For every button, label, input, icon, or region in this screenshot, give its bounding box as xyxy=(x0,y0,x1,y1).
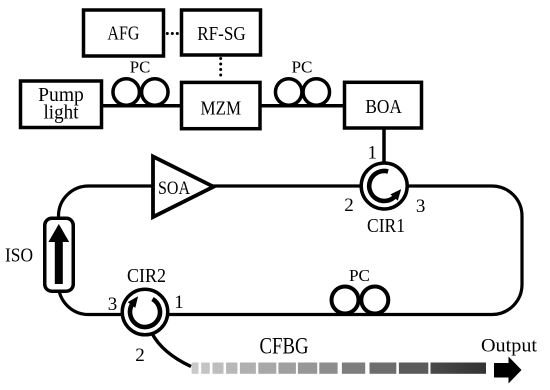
wire CIR2 port 2 to CFBG xyxy=(152,333,192,367)
CFBG label xyxy=(260,334,309,359)
svg-text:Output: Output xyxy=(481,335,538,356)
wire MZM to BOA xyxy=(260,104,345,108)
polarization controller PC (bottom) xyxy=(332,266,389,314)
CFBG grating segments xyxy=(192,363,486,374)
CIR1 label xyxy=(367,215,405,237)
svg-text:PC: PC xyxy=(349,266,370,285)
fiber ring loop xyxy=(59,186,523,315)
svg-text:1: 1 xyxy=(174,292,184,313)
CIR2 label xyxy=(127,265,166,287)
svg-text:3: 3 xyxy=(416,196,426,217)
wire Pump light to MZM xyxy=(101,104,182,108)
svg-text:2: 2 xyxy=(135,345,145,366)
Pump light box xyxy=(21,81,102,128)
svg-text:CIR2: CIR2 xyxy=(127,265,166,287)
CIR2 port 2 xyxy=(135,345,145,366)
svg-text:light: light xyxy=(44,102,79,124)
CIR2 port 3 xyxy=(108,294,118,315)
svg-text:AFG: AFG xyxy=(107,23,139,45)
BOA box xyxy=(345,82,422,128)
circulator CIR1 xyxy=(361,163,407,209)
svg-text:2: 2 xyxy=(344,195,354,216)
svg-text:ISO: ISO xyxy=(5,245,33,267)
MZM box xyxy=(182,82,261,128)
wire BOA to CIR1 port 1 xyxy=(382,128,386,167)
CIR1 port 2 xyxy=(344,195,354,216)
svg-text:PC: PC xyxy=(292,58,313,77)
svg-text:MZM: MZM xyxy=(201,98,242,120)
svg-text:SOA: SOA xyxy=(158,178,190,199)
dotted control line RF-SG to MZM xyxy=(219,57,222,77)
svg-text:CFBG: CFBG xyxy=(260,334,309,359)
svg-text:BOA: BOA xyxy=(365,96,402,118)
polarization controller PC (top left) xyxy=(113,58,168,106)
RF-SG box xyxy=(182,10,261,55)
svg-text:PC: PC xyxy=(130,58,151,77)
CIR1 port 3 xyxy=(416,196,426,217)
CIR2 port 1 xyxy=(174,292,184,313)
svg-text:CIR1: CIR1 xyxy=(367,215,405,237)
svg-text:RF-SG: RF-SG xyxy=(197,23,246,45)
output arrow xyxy=(494,357,522,384)
circulator CIR2 xyxy=(122,289,168,335)
CIR1 port 1 xyxy=(367,143,377,164)
dotted control line AFG to RF-SG xyxy=(166,32,179,35)
Output label xyxy=(481,335,538,356)
svg-text:1: 1 xyxy=(367,143,377,164)
SOA amplifier triangle xyxy=(153,157,214,218)
isolator ISO xyxy=(5,218,73,291)
AFG box xyxy=(84,10,164,56)
polarization controller PC (top right) xyxy=(275,58,329,106)
svg-text:3: 3 xyxy=(108,294,118,315)
